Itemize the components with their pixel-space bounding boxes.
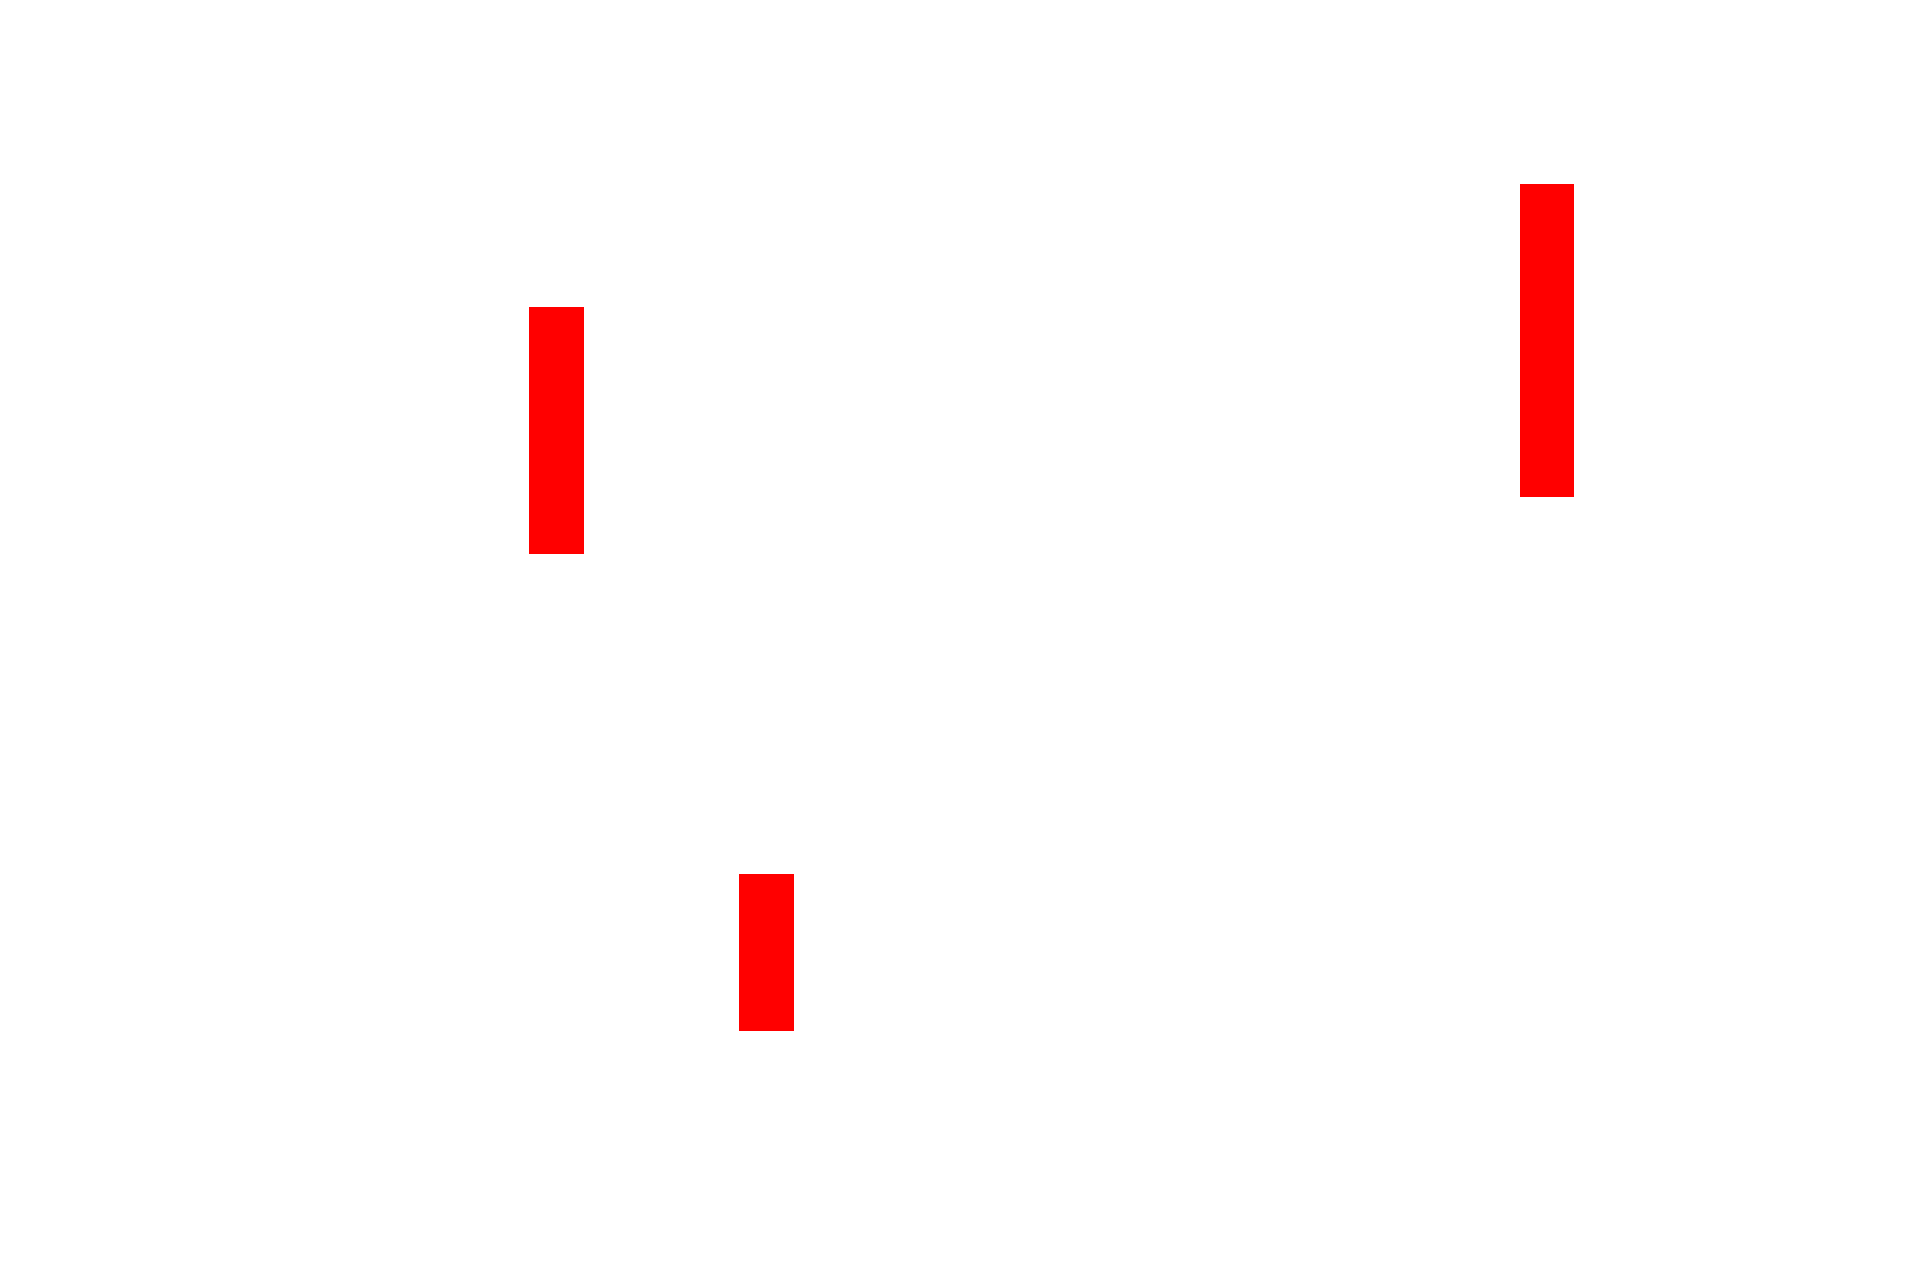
bar 1 (left red column) <box>529 307 584 554</box>
bar 3 (bottom-center red column) <box>739 874 794 1031</box>
bar 2 (right red column) <box>1520 184 1574 497</box>
